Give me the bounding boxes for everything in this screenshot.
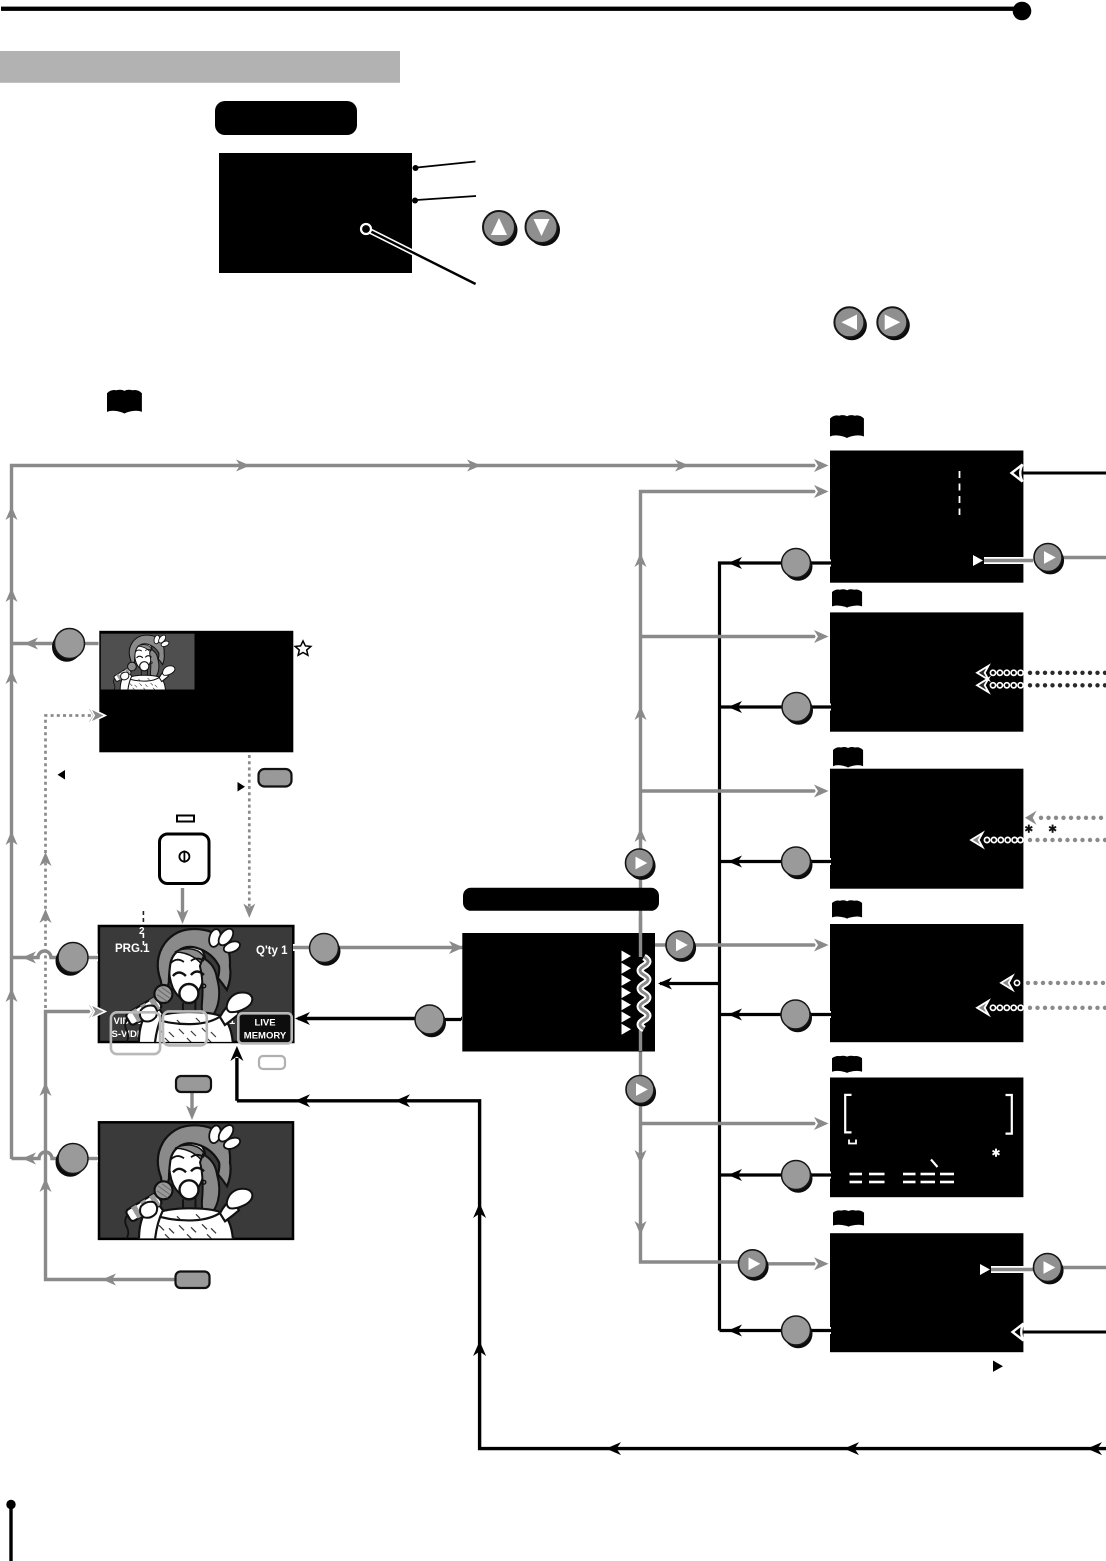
plain circle row S1 <box>782 549 813 581</box>
plain circle Qty <box>310 934 341 966</box>
gray up arrows on left trunk <box>6 506 18 1002</box>
dotted leader S4 row1 <box>1001 976 1105 990</box>
black arrow into LIVE MEMORY <box>295 1012 462 1025</box>
book icon S1 <box>830 415 864 438</box>
small rect above power <box>177 816 194 822</box>
svg-text:2: 2 <box>139 926 145 937</box>
S6 exit white chevron <box>1013 1324 1024 1341</box>
dotted leader S3 row2 <box>971 833 1106 847</box>
gray wire below print to S6 <box>635 1051 829 1270</box>
remote display screen <box>219 153 412 273</box>
plain circle row S2 <box>782 693 813 725</box>
gray arrow button to screen C <box>186 1092 198 1120</box>
command label <box>215 101 357 135</box>
gray wire through print screen <box>639 916 642 1052</box>
gray button below screen C <box>176 1272 210 1289</box>
row link dashes white cased <box>443 563 831 1331</box>
screen S5 <box>830 1078 1023 1198</box>
black arrow row S4 <box>720 1013 782 1016</box>
print screen <box>462 933 655 1052</box>
gray wire into S4 <box>650 939 829 952</box>
plain circle print left <box>415 1005 446 1037</box>
S1 exit white chevron <box>1012 465 1023 482</box>
black return path bottom <box>237 1094 1106 1455</box>
svg-text:PRG.1: PRG.1 <box>115 943 150 955</box>
triangle below S6 <box>993 1361 1003 1372</box>
book icon S5 <box>832 1056 862 1073</box>
gray arrow power button to screen B <box>177 888 189 924</box>
black line out of S6 <box>1020 1331 1106 1334</box>
screen B <box>99 926 293 1043</box>
button RIGHT <box>877 307 910 340</box>
overlay box LIVE MEMORY <box>238 1013 291 1043</box>
dotted leader S4 row2 <box>977 1001 1106 1015</box>
gray wire circle C row with hop <box>12 1152 99 1165</box>
svg-text:Q'ty 1: Q'ty 1 <box>256 945 288 957</box>
entry marker screen B arrow <box>92 1006 104 1017</box>
overlay box middle <box>163 1011 207 1045</box>
print spring symbol <box>640 957 648 1029</box>
plain circle row S5 <box>782 1161 813 1193</box>
gray main loop wire <box>12 466 829 1160</box>
S1 play wire <box>984 558 1106 561</box>
svg-text:MEMORY: MEMORY <box>244 1031 287 1042</box>
gray S1 entry arrows <box>814 459 829 472</box>
button LEFT <box>834 307 867 340</box>
asterisk pair <box>1025 825 1056 833</box>
plain circle A <box>52 629 85 662</box>
play circle above print <box>626 849 656 880</box>
black return trunk vertical <box>720 563 797 1331</box>
book icon left <box>107 390 142 414</box>
plain circle row S3 <box>782 847 813 879</box>
gray wire into S3 <box>641 785 829 798</box>
triangle left mark <box>58 770 66 780</box>
black line out of S1 <box>1020 472 1106 475</box>
plain circle row S4 <box>781 1000 812 1032</box>
gray dashed wire into screen A <box>46 716 93 1009</box>
book icon S6 <box>833 1210 864 1226</box>
book icon S3 <box>833 747 863 768</box>
black arrow row S3 <box>720 860 783 863</box>
S6 play wire <box>991 1268 1106 1270</box>
black arrow row S5 <box>720 1173 783 1176</box>
play circle right of S1 <box>1034 544 1064 575</box>
callout dot 2 <box>412 196 476 204</box>
play circle below print <box>626 1076 656 1107</box>
book icon S4 <box>832 900 862 918</box>
entry marker circle A dash <box>85 640 99 647</box>
top rule <box>1 2 1031 21</box>
screen S4 <box>830 924 1023 1042</box>
black up arrow under LIVE MEMORY <box>230 1046 243 1101</box>
screen A <box>99 631 293 753</box>
screen S2 <box>830 612 1023 731</box>
title bar <box>0 51 400 83</box>
plain circle C <box>56 1144 89 1177</box>
play circle S4 wire <box>666 931 696 962</box>
power button <box>160 834 210 884</box>
gray wire into S5 <box>641 1117 829 1130</box>
svg-text:LIVE: LIVE <box>254 1018 275 1029</box>
screen S3 <box>830 769 1023 889</box>
gray wire circle A row <box>12 638 99 650</box>
black arrow into print wavy <box>658 978 720 990</box>
gray button top <box>259 769 292 787</box>
gray wire Qty to print screen <box>293 941 464 954</box>
gray dashed wire screen A to screen B <box>243 755 255 918</box>
footnote 2 dashed marker <box>139 911 145 947</box>
gray wire into S2 <box>641 630 829 643</box>
play circle right of S6 <box>1034 1254 1064 1285</box>
bottom left reference dot <box>6 1500 15 1561</box>
gray button above screen C <box>176 1076 211 1092</box>
gray wire circle B row with hop <box>12 951 99 964</box>
button DOWN <box>526 211 561 246</box>
entry marker screen A dashed arrow <box>92 710 104 721</box>
plain circle row S6 <box>782 1316 813 1348</box>
black arrow row S2 <box>720 705 783 708</box>
button UP <box>483 211 518 246</box>
triangle right mark <box>238 782 246 792</box>
gray right arrows on top wire <box>236 460 689 472</box>
book icon S2 <box>832 589 862 607</box>
small box below screen B <box>259 1056 285 1069</box>
gray second wire into S1 <box>635 485 829 933</box>
play circle S6 wire <box>739 1250 769 1281</box>
screen S1 <box>830 451 1023 583</box>
dotted leader S2 row1 <box>977 666 1106 680</box>
print menu label <box>463 888 659 911</box>
black arrowheads into trunk <box>728 557 742 1337</box>
dotted leader S3 row1 <box>1025 811 1103 825</box>
callout dot 1 <box>413 162 476 172</box>
black arrow row S6 <box>720 1329 783 1332</box>
screen C <box>99 1122 293 1239</box>
gray wire button to screen B entry <box>40 1005 176 1286</box>
entry marker circle B dash <box>88 954 98 961</box>
star footnote <box>295 641 311 655</box>
callout ring with leader <box>361 224 476 284</box>
overlay box VIDEO/S-VIDEO <box>111 1012 160 1054</box>
entry marker circle C dash <box>88 1155 98 1162</box>
plain circle B <box>56 943 89 976</box>
dotted leader S2 row2 <box>977 678 1106 692</box>
screen S6 <box>830 1233 1023 1352</box>
entry marker Qty dash <box>293 944 310 951</box>
